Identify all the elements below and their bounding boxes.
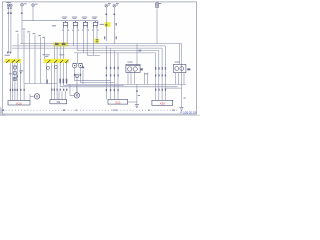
connector drops mid right	[145, 73, 148, 85]
left mid drop c	[29, 33, 31, 84]
connector symbols in yellow bus patch	[55, 43, 65, 44]
cluster1 wire 2	[12, 63, 14, 101]
connector specks right rails mid	[155, 67, 156, 69]
connector box cluster4	[152, 100, 173, 105]
cluster3 ground link	[128, 101, 137, 103]
fuse top right	[156, 2, 159, 8]
cluster3 wire 2	[110, 48, 112, 99]
wire fuse F right	[156, 8, 158, 43]
relay K1	[63, 22, 67, 25]
motor2 top wire	[76, 86, 78, 93]
lamp pair connector marks	[7, 12, 9, 14]
relay leg 1a	[63, 28, 65, 43]
label right of pump unit	[187, 68, 190, 70]
cluster2 wire 5	[63, 63, 65, 86]
relay K4	[93, 22, 97, 25]
cluster3 wire 3	[113, 51, 115, 100]
connector symbol in yellow lamp patch	[105, 24, 107, 25]
wire labels cluster2 lower	[46, 79, 48, 83]
bus fuse strip	[22, 21, 98, 24]
mid right collector 2	[60, 86, 177, 88]
pressure switch 2	[78, 63, 82, 67]
relay leg 4b	[96, 28, 98, 43]
svg-text:X9: X9	[56, 100, 60, 104]
label above pump box	[175, 61, 180, 64]
right box legs	[176, 73, 185, 85]
mid drop to band B3	[59, 46, 61, 59]
bus 30	[20, 43, 182, 45]
switch symbols in left yellow band	[7, 60, 20, 63]
connector symbol in leg patch	[96, 40, 98, 41]
lamp H5	[105, 4, 108, 7]
connector box cluster1	[8, 101, 30, 106]
dash darker ticks	[63, 110, 65, 111]
switch symbols in mid yellow band	[48, 60, 69, 63]
page bottom edge shading	[0, 115, 200, 116]
lamp pair pin marks	[7, 8, 9, 9]
cluster3 ground rail	[136, 84, 138, 104]
cluster4 L wire	[165, 87, 181, 89]
cluster2 wire 2	[53, 63, 55, 100]
page corner shadow bottom-left	[0, 106, 6, 116]
highlight on leg connector	[95, 39, 100, 44]
label at bus4 corner	[139, 50, 142, 52]
cluster4 wire 3	[161, 48, 163, 100]
wire marks cluster4 mid	[155, 74, 156, 76]
dashed separator	[3, 109, 179, 111]
left mid drop e	[41, 37, 45, 84]
bus 2	[12, 45, 165, 47]
fuse label	[159, 2, 161, 5]
wire lamp pair left	[8, 7, 10, 53]
ground rail marks	[138, 95, 140, 96]
wire marks cluster3 mid	[106, 74, 107, 76]
highlight on bus connectors	[53, 42, 68, 46]
cluster2 wire 3	[56, 63, 58, 100]
lamp H6	[113, 4, 116, 7]
label left of relay1	[52, 25, 56, 26]
cluster1 wire 5	[20, 63, 22, 101]
left mid drop b	[23, 31, 25, 84]
cluster4 wire 1	[155, 53, 157, 100]
bus right drop to ground	[181, 44, 183, 108]
connector specks cluster2	[51, 89, 52, 91]
relay K2	[73, 22, 77, 25]
pair connectors above band A	[7, 52, 9, 54]
lamp4 label	[35, 3, 38, 6]
label right of pressure switches	[82, 67, 85, 69]
mid right collector	[67, 83, 186, 85]
relay leg 2a	[73, 28, 75, 46]
lamp crosses	[8, 4, 116, 7]
border frame	[2, 2, 196, 114]
label above lamp pair	[6, 1, 11, 4]
motor2 feed	[59, 84, 74, 99]
relay leg 3b	[86, 28, 88, 55]
lamp wire connector marks	[105, 14, 107, 15]
label below band A	[12, 66, 17, 67]
pressure switch 1	[73, 63, 77, 67]
label right of mid relay cluster	[141, 68, 143, 70]
connector box cluster2	[50, 100, 67, 104]
right box feed	[179, 44, 181, 65]
cluster2 wire 4	[59, 63, 61, 87]
pressure switch 3 lower	[75, 74, 79, 78]
connector specks cluster3	[106, 89, 107, 91]
page background	[0, 0, 200, 116]
relay labels	[62, 16, 67, 19]
svg-text:P 105 02 03: P 105 02 03	[180, 111, 196, 115]
motor1 link	[30, 95, 34, 97]
connector specks cluster1	[10, 89, 11, 91]
ground label right	[184, 98, 186, 99]
mid drop to band B2	[56, 46, 58, 59]
relay row	[63, 21, 97, 29]
bus 6 short	[87, 54, 100, 56]
pressure switch drop marks	[74, 74, 76, 76]
connector box cluster3	[108, 100, 128, 105]
cluster2 wire 6	[66, 63, 68, 85]
svg-text:X13: X13	[115, 101, 121, 105]
left edge top small mark	[43, 54, 45, 55]
cluster4 wire 4	[164, 46, 166, 100]
cluster3 wire 4	[117, 53, 119, 100]
lamp5 label	[108, 2, 111, 5]
label mid cluster1	[19, 70, 23, 71]
lamp H1	[7, 4, 10, 7]
relay K3	[83, 22, 87, 25]
mid bottom collector	[64, 85, 124, 87]
cluster2 wire 1	[51, 63, 53, 100]
highlight on lamp wire connector	[105, 22, 111, 27]
cluster4 wire 2	[158, 51, 160, 101]
bus 5	[74, 52, 156, 54]
bus 3	[12, 47, 162, 49]
lamp H4	[32, 4, 35, 7]
svg-text:K20: K20	[16, 101, 22, 105]
relay leg 3a	[83, 28, 85, 53]
wire lamp K6	[113, 8, 115, 44]
pump unit right	[174, 64, 186, 72]
pin labels beside lamp wires mid	[104, 36, 105, 39]
bus 4	[77, 50, 159, 52]
cluster2 wire 0	[45, 63, 47, 79]
connector specks cluster4	[155, 89, 156, 91]
left mid drop a	[17, 34, 19, 60]
connector specks mid rails	[106, 67, 107, 69]
motor M1	[34, 94, 39, 99]
lamp6 label	[116, 2, 119, 5]
svg-text:X50: X50	[160, 101, 166, 105]
pressure switch bracket and feed	[72, 53, 83, 63]
diode chain on cluster1	[13, 66, 16, 81]
motor1 drop	[29, 94, 31, 101]
relay leg 2b	[76, 28, 78, 50]
relay leg 1b	[66, 28, 68, 43]
wire lamp pair right	[10, 7, 12, 53]
cluster3 wire 1	[105, 46, 107, 100]
lamp H3	[21, 3, 24, 6]
ground cluster3	[135, 105, 139, 108]
cluster1 wire 1	[9, 63, 11, 101]
pressure switch wires down	[75, 68, 115, 96]
switch circle on cluster2 wire b	[54, 66, 57, 69]
lamp3 label	[24, 2, 27, 5]
lamp H2	[10, 4, 13, 7]
left mid collector	[24, 83, 57, 85]
wire lamp K4	[32, 7, 34, 21]
relay cluster mid	[126, 64, 140, 72]
labels right of connector drops	[144, 72, 148, 75]
wire lamp K3	[21, 7, 23, 44]
label left of yellow lamp patch	[100, 23, 105, 26]
label 15 right of lamp6 wire	[116, 23, 117, 26]
mid drop to band B4	[63, 46, 65, 59]
wire lamp K5	[105, 8, 107, 41]
motor M2	[74, 93, 79, 98]
highlight switch band mid	[44, 59, 69, 63]
relay leg 4a	[93, 28, 95, 55]
cluster1 wire 6	[23, 84, 25, 101]
label above mid relay box	[128, 61, 133, 64]
cluster1 wire 3	[14, 63, 16, 101]
pin numbers under relays	[62, 30, 63, 31]
highlight switch band left	[5, 59, 22, 63]
mid drop to band B1	[53, 46, 55, 59]
left mid drop d	[34, 35, 36, 84]
switch circle on cluster2 wire a	[46, 66, 49, 69]
wire labels left mid	[16, 30, 19, 33]
cluster1 wire 4	[16, 63, 18, 101]
ground right rail	[180, 108, 184, 111]
relay cluster mid legs	[128, 71, 135, 84]
labels above band B	[45, 53, 49, 56]
relay cluster mid feed	[136, 44, 138, 66]
